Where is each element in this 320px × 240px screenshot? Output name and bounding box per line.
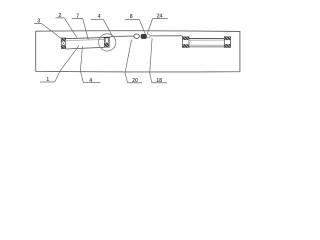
leader for 3 to left bearing (42, 24, 63, 40)
left bearing block (61, 38, 65, 49)
rod line right span (150, 35, 182, 37)
rod line left span (110, 35, 134, 37)
leader for 7 to tube (83, 19, 89, 40)
right tube top wall (189, 38, 224, 40)
label 2 (56, 13, 65, 19)
nut block (141, 34, 147, 38)
leader for 1 to tube bottom (55, 46, 79, 82)
leader for 4 top to circled part (103, 19, 112, 36)
adjuster ellipse (134, 34, 140, 38)
leader for 18 (150, 38, 152, 83)
label 7 (72, 13, 83, 19)
leader for 2 to tube top (64, 18, 77, 38)
label 24 (153, 13, 168, 19)
left tube top wall (66, 38, 105, 41)
label 18 (152, 78, 167, 84)
label 4 top (91, 14, 103, 20)
circled seal component (103, 37, 110, 47)
detail callout circle (99, 34, 116, 51)
right tube bottom wall (189, 45, 224, 47)
label 4 bottom (83, 78, 100, 84)
leader for 4 bottom (80, 46, 83, 82)
label 8 (125, 14, 139, 20)
rod to block joint (181, 36, 183, 37)
outer frame box (bracket), slightly tilted scan (36, 31, 240, 72)
leader for 20 (125, 40, 132, 83)
label 3 (34, 18, 42, 24)
right inner block (182, 37, 189, 48)
label 1 (40, 77, 55, 83)
leader for 8 to nut (139, 19, 145, 35)
left tube bottom wall (66, 47, 105, 49)
label 20 (128, 78, 142, 84)
small ellipse right of nut (147, 35, 151, 38)
right bearing block (224, 37, 230, 48)
leader for 24 to nut area (147, 18, 152, 33)
